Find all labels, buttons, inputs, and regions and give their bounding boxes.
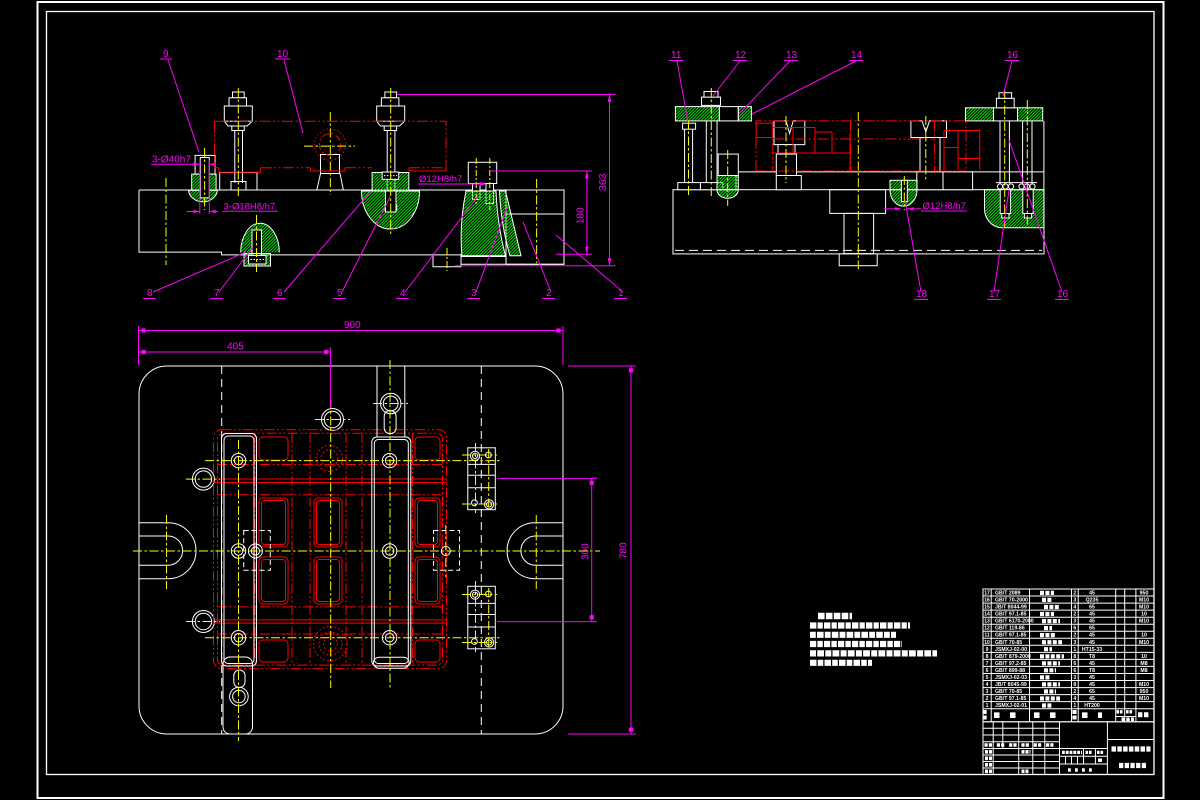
lower clamp bolt (part 7) recess dome — [241, 223, 280, 266]
centerlines (side view) — [689, 88, 1028, 271]
left stud nut (part 12) — [700, 92, 723, 190]
eyebolt hole phantom circle — [314, 129, 345, 160]
BOM table frame — [983, 589, 1154, 722]
svg-text:45: 45 — [1089, 619, 1095, 625]
svg-text:950: 950 — [1140, 689, 1149, 695]
washer seat line right studs — [996, 182, 1037, 184]
svg-text:1: 1 — [1073, 647, 1076, 653]
svg-text:3: 3 — [986, 689, 989, 695]
svg-text:65: 65 — [1089, 689, 1095, 695]
right stud with nut (part 5) — [377, 92, 405, 211]
svg-text:6: 6 — [1073, 668, 1076, 674]
svg-text:11: 11 — [984, 633, 990, 639]
seat block under right stud (hatched) — [372, 172, 409, 191]
svg-text:8: 8 — [1073, 682, 1076, 688]
leader lines top (side view) — [677, 61, 1012, 122]
corner support hatched (side view right) — [984, 190, 1043, 228]
washer ball row — [997, 184, 1035, 189]
svg-text:12: 12 — [735, 50, 747, 61]
svg-text:900: 900 — [344, 320, 361, 331]
svg-text:45: 45 — [1089, 591, 1095, 597]
svg-text:M10: M10 — [1139, 598, 1149, 604]
pad bolts — [248, 544, 450, 558]
svg-text:11: 11 — [671, 50, 682, 61]
phantom workpiece (side view) — [756, 121, 966, 171]
right stud pair hatched plate (part 16) — [966, 93, 1043, 121]
svg-text:GB/T 70-85: GB/T 70-85 — [995, 689, 1022, 695]
svg-text:4: 4 — [400, 288, 406, 299]
svg-text:3: 3 — [1073, 675, 1076, 681]
centerline right stud — [390, 88, 392, 235]
svg-text:JSMXJ-02-00: JSMXJ-02-00 — [995, 647, 1027, 653]
svg-text:6: 6 — [277, 288, 283, 299]
centerlines (plan) — [133, 360, 600, 741]
support pillar with spherical washer (side view left) — [717, 154, 738, 198]
svg-text:GB/T 119-86: GB/T 119-86 — [995, 626, 1025, 632]
svg-text:14: 14 — [851, 50, 863, 61]
phantom cell pockets inner walls (plan) — [262, 501, 438, 602]
svg-text:M10: M10 — [1139, 605, 1149, 611]
center boss bore (side view) — [830, 190, 886, 254]
clamp bar middle (plan) — [372, 366, 411, 668]
centerlines clamp screws — [476, 158, 490, 210]
pedestal under left stud — [220, 173, 257, 191]
svg-text:8: 8 — [1073, 654, 1076, 660]
svg-text:16: 16 — [984, 598, 990, 604]
svg-text:950: 950 — [1140, 591, 1149, 597]
svg-text:18: 18 — [916, 289, 928, 300]
svg-text:3: 3 — [471, 288, 477, 299]
svg-text:65: 65 — [1089, 605, 1095, 611]
svg-text:17: 17 — [989, 289, 1001, 300]
BOM name blobs — [1040, 593, 1064, 706]
label 3-Ø18H8/h7 — [187, 202, 279, 214]
clamp bar bolts left — [230, 453, 249, 705]
svg-text:M10: M10 — [1139, 682, 1149, 688]
svg-text:Q235: Q235 — [1086, 598, 1099, 604]
svg-text:6: 6 — [1073, 661, 1076, 667]
side clamp block upper (plan) — [468, 448, 496, 510]
svg-text:M10: M10 — [1139, 696, 1149, 702]
svg-text:4: 4 — [1073, 605, 1076, 611]
svg-text:9: 9 — [163, 49, 169, 60]
dim 405 (plan) — [139, 347, 330, 408]
centerline foot — [446, 248, 448, 271]
balloons 1-8 bottom row — [147, 288, 624, 299]
note line 2 — [810, 632, 896, 638]
svg-text:14: 14 — [984, 612, 990, 618]
dim 300 (plan) — [497, 478, 597, 621]
mounting band plate (side view) — [736, 172, 1044, 190]
svg-text:JSMXJ-02-01: JSMXJ-02-01 — [995, 703, 1027, 709]
base plate (side view) — [673, 190, 1044, 254]
svg-text:780: 780 — [619, 542, 630, 559]
svg-text:45: 45 — [1089, 633, 1095, 639]
svg-text:45: 45 — [1089, 612, 1095, 618]
dim 363 — [397, 95, 616, 266]
svg-text:GB/T 879-2000: GB/T 879-2000 — [995, 654, 1031, 660]
dim 180 — [490, 171, 592, 254]
left stud with nut (part 6) — [224, 92, 252, 183]
svg-text:2: 2 — [1073, 591, 1076, 597]
svg-text:3: 3 — [1073, 598, 1076, 604]
phantom workpiece outline (plan) — [214, 430, 447, 669]
clamp head (part 4) — [468, 162, 496, 203]
clamp bar left (plan) — [222, 434, 257, 735]
svg-text:Ø12H8/h7: Ø12H8/h7 — [419, 174, 462, 185]
balloons 11-16 top row (side view) — [671, 50, 1019, 61]
svg-text:JSMXJ-02-03: JSMXJ-02-03 — [995, 675, 1027, 681]
V-block left (side view) — [774, 121, 805, 190]
svg-text:15: 15 — [984, 605, 990, 611]
right angle support wall — [1043, 121, 1045, 190]
svg-text:300: 300 — [581, 543, 592, 560]
right stud shafts — [1000, 121, 1032, 184]
svg-text:GB/T 2089: GB/T 2089 — [995, 591, 1020, 597]
svg-text:10: 10 — [277, 49, 289, 60]
centerline left stud — [237, 88, 239, 196]
note line 4 — [810, 650, 937, 656]
svg-text:45: 45 — [1089, 696, 1095, 702]
clamp wedge left part (hatched) — [461, 191, 505, 256]
svg-text:4: 4 — [1073, 696, 1076, 702]
spherical washer dome (part 5 seat) — [362, 191, 420, 229]
svg-text:45: 45 — [1089, 675, 1095, 681]
locating pin dome (part 18) — [890, 180, 917, 206]
svg-text:GB/T 6170-2000: GB/T 6170-2000 — [995, 619, 1034, 625]
svg-text:GB/T 97.1-85: GB/T 97.1-85 — [995, 696, 1027, 702]
phantom boss circles (plan) — [313, 445, 347, 660]
base plate outline (plan) — [139, 366, 563, 734]
svg-text:13: 13 — [786, 50, 798, 61]
bore ring left lower — [192, 611, 214, 633]
svg-text:HT200: HT200 — [1084, 703, 1100, 709]
svg-text:HT15-33: HT15-33 — [1082, 647, 1102, 653]
svg-text:M8: M8 — [1140, 668, 1147, 674]
svg-text:Ø12H8/h7: Ø12H8/h7 — [923, 201, 966, 212]
left clamp plate hatched (part 13) — [675, 107, 751, 121]
svg-text:GB/T 97.1-85: GB/T 97.1-85 — [995, 633, 1027, 639]
support block right (part 1/2) — [506, 190, 564, 264]
centerline right block — [536, 179, 538, 263]
svg-text:13: 13 — [984, 619, 990, 625]
technical requirements heading — [818, 613, 852, 620]
svg-text:7: 7 — [214, 288, 220, 299]
svg-text:2: 2 — [986, 696, 989, 702]
svg-text:5: 5 — [986, 675, 989, 681]
svg-text:GB/T 97.1-85: GB/T 97.1-85 — [995, 612, 1027, 618]
clamp plate left (3-Ø40h7 boss) — [189, 155, 218, 201]
svg-text:M8: M8 — [1140, 661, 1147, 667]
svg-text:16: 16 — [1057, 289, 1069, 300]
phantom boss (side view) — [756, 123, 980, 171]
svg-text:JB/T 8045-99: JB/T 8045-99 — [995, 682, 1027, 688]
BOM rows text — [984, 591, 1149, 710]
svg-text:GB/T 70-85: GB/T 70-85 — [995, 640, 1022, 646]
svg-text:7: 7 — [986, 661, 989, 667]
BOM header row — [985, 710, 1149, 720]
clamp wedge right part (hatched) — [500, 191, 522, 256]
dim 780 (plan) — [568, 366, 636, 734]
title block text blobs — [985, 745, 1151, 771]
leader lines bottom (side view) — [905, 140, 1062, 292]
svg-text:45: 45 — [1089, 640, 1095, 646]
svg-text:65: 65 — [1089, 626, 1095, 632]
clamp bar bolts middle — [381, 393, 401, 645]
center foot (side view) — [839, 254, 877, 266]
note line 5 — [810, 660, 872, 666]
svg-text:M10: M10 — [1139, 619, 1149, 625]
svg-text:3: 3 — [1073, 619, 1076, 625]
svg-text:2: 2 — [546, 288, 552, 299]
svg-text:2: 2 — [1073, 689, 1076, 695]
svg-text:6: 6 — [1073, 626, 1076, 632]
svg-text:363: 363 — [597, 173, 609, 191]
title block frame — [983, 722, 1154, 775]
svg-text:4: 4 — [986, 682, 989, 688]
section trace dashed right — [480, 366, 482, 734]
svg-text:3: 3 — [1073, 640, 1076, 646]
svg-text:M10: M10 — [1139, 640, 1149, 646]
svg-text:GB/T 97.2-85: GB/T 97.2-85 — [995, 661, 1027, 667]
left guide rod (part 11) — [678, 123, 701, 190]
svg-text:16: 16 — [1007, 50, 1019, 61]
svg-text:1: 1 — [986, 703, 989, 709]
U-slot right — [507, 523, 563, 579]
svg-text:405: 405 — [227, 342, 244, 353]
phantom workpiece pads (front) — [219, 168, 446, 173]
svg-text:6: 6 — [986, 668, 989, 674]
eyebolt centerlines — [304, 112, 355, 195]
svg-text:10: 10 — [1141, 633, 1147, 639]
U-slot left — [139, 523, 196, 579]
section trace dashed left — [221, 366, 223, 734]
svg-text:10: 10 — [1141, 654, 1147, 660]
phantom clamp rail bands (plan) — [214, 479, 447, 623]
svg-text:T8: T8 — [1089, 654, 1095, 660]
note line 3 — [810, 641, 902, 647]
phantom cell pockets (plan) — [259, 437, 440, 662]
balloon 9 — [160, 49, 199, 152]
label Ø12H8/h7 (side) — [884, 201, 967, 212]
svg-text:JB/T 8044-99: JB/T 8044-99 — [995, 605, 1027, 611]
balloon 10 — [275, 49, 303, 133]
label 3-Ø40h7 — [151, 155, 216, 215]
svg-text:8: 8 — [986, 654, 989, 660]
svg-text:12: 12 — [984, 626, 990, 632]
dim 900 (plan) — [139, 326, 564, 365]
leader lines to balloons — [153, 191, 623, 292]
svg-text:45: 45 — [1089, 661, 1095, 667]
V-block right (side view) — [911, 121, 973, 190]
svg-text:GB/T 899-88: GB/T 899-88 — [995, 668, 1025, 674]
side clamp block lower (plan) — [468, 586, 496, 649]
svg-text:17: 17 — [984, 591, 990, 597]
bore ring left upper — [192, 468, 214, 490]
svg-text:1: 1 — [1073, 703, 1076, 709]
svg-text:GB/T 70-2000: GB/T 70-2000 — [995, 598, 1028, 604]
base plate (front view) — [139, 190, 564, 267]
svg-text:9: 9 — [986, 647, 989, 653]
svg-text:10: 10 — [984, 640, 990, 646]
svg-text:8: 8 — [147, 288, 153, 299]
support pads dashed (plan) — [244, 531, 460, 571]
center pedestal (eyebolt boss) — [317, 155, 344, 191]
bore ring top center — [322, 409, 344, 431]
balloons bottom (side view) — [916, 289, 1069, 300]
svg-text:T8: T8 — [1089, 668, 1095, 674]
svg-text:180: 180 — [576, 207, 587, 224]
note line 1 — [810, 622, 910, 628]
centerline left U-slot — [165, 178, 167, 265]
svg-text:45: 45 — [1089, 682, 1095, 688]
centerline lower bolt — [256, 215, 258, 272]
svg-text:5: 5 — [337, 288, 343, 299]
phantom workpiece outline (front) — [215, 121, 447, 168]
svg-text:10: 10 — [1141, 612, 1147, 618]
centerline left clamp — [204, 148, 206, 210]
label Ø12H8/h7 (front) — [418, 174, 487, 186]
svg-text:2: 2 — [1073, 633, 1076, 639]
svg-text:2: 2 — [1073, 612, 1076, 618]
